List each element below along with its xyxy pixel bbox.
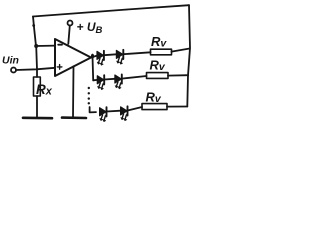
ground right [62,116,86,119]
resistor Rv1 [151,49,172,55]
node ellipsis dots (omitted rows) [88,87,90,105]
resistor Rv2 [147,73,169,79]
resistor Rx [34,77,41,96]
terminal Uin [11,68,16,73]
wire top rail from left corner to right corner [33,5,189,16]
wire +UB terminal to op-amp top [68,26,70,44]
LED D2 [116,50,123,65]
wire corner into LED row 3 [90,107,96,112]
svg-text:+ UB: + UB [77,20,103,36]
wire output rail down to row 2 [92,56,95,80]
wire Uin to non-inverting input (crosses left vertical) [16,68,55,70]
node blob on left vertical [32,24,35,27]
wire row1 LED2 to Rv1 [123,52,150,54]
wire row3 LED6 to Rv3 [128,107,142,111]
wire Rv3 to right rail bottom corner [167,106,187,108]
wire row2 LED4 to Rv2 [122,76,147,79]
resistor Rv3 [142,104,167,110]
op-amp minus mark [58,44,62,46]
LED D1 [97,51,104,66]
wire Rv1 to right rail [172,49,190,52]
LED D6 [121,106,128,121]
wire row 2 from rail corner [93,79,97,81]
node A junction dot inverting input [34,44,38,48]
wire inverting input to op-amp [36,45,55,47]
wire op-amp negative supply to ground [72,66,75,117]
svg-text:Uin: Uin [2,55,19,67]
node output junction dot [91,54,94,59]
LED D4 [115,74,122,89]
wire Rv2 to right rail [168,74,188,76]
op-amp U1 [55,39,91,76]
svg-text:Rv: Rv [146,90,162,105]
terminal +UB [68,21,73,26]
wire right rail down to bottom corner [187,5,190,106]
wire left vertical from top corner to inverting node [33,17,36,47]
op-amp plus mark [57,65,62,70]
svg-text:Rv: Rv [151,34,167,49]
wire row1 between LEDs [104,53,117,56]
wire row2 between LEDs [104,78,115,81]
ground left [23,117,52,120]
wire row3 between LEDs [107,110,121,113]
LED D5 [100,107,107,122]
svg-text:Rx: Rx [36,82,53,98]
wire Rx to ground [36,96,38,117]
wire left vertical from node A down to Rx [35,46,38,77]
svg-text:Rv: Rv [150,58,166,73]
wire op-amp output to LED row 1 [91,56,97,58]
LED D3 [97,75,104,90]
